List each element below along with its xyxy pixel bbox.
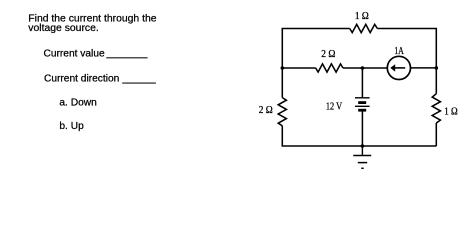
wire: top rail right segment + right rail upper xyxy=(377,29,436,69)
blank line for current value xyxy=(106,57,147,59)
wire: right rail lower xyxy=(435,123,437,146)
resistor R right 1-ohm (vertical zigzag) xyxy=(432,94,440,123)
svg-text:Current direction: Current direction xyxy=(44,73,119,84)
wire: right rail from node C down to right resistor xyxy=(435,68,437,94)
node A junction dot (left middle) xyxy=(281,66,285,70)
svg-text:2 Ω: 2 Ω xyxy=(259,105,273,116)
wire: middle rail from node A to 2-ohm resistor xyxy=(282,67,315,69)
svg-text:Current value: Current value xyxy=(44,48,105,59)
wire: middle branch from node B down to battery xyxy=(361,68,363,97)
svg-text:1A: 1A xyxy=(394,46,404,57)
svg-text:12 V: 12 V xyxy=(326,102,343,113)
wire: battery to bottom rail node D xyxy=(361,112,363,147)
resistor R mid 2-ohm (horizontal zigzag) xyxy=(316,64,343,72)
wire: left rail from node A down to left resistor xyxy=(281,68,283,98)
resistor R left 2-ohm (vertical zigzag) xyxy=(278,98,286,126)
svg-text:2 Ω: 2 Ω xyxy=(321,49,335,60)
node D junction dot (bottom middle) xyxy=(361,144,365,148)
svg-text:b. Up: b. Up xyxy=(59,121,84,132)
node B junction dot (middle) xyxy=(361,66,365,70)
voltage source V1 12V battery xyxy=(355,98,370,110)
svg-text:voltage source.: voltage source. xyxy=(28,23,98,34)
current source arrow (pointing left) xyxy=(390,64,405,71)
wire: left rail lower + bottom rail xyxy=(282,126,436,146)
current source I1 1A circle xyxy=(387,56,410,79)
wire: left rail upper + top rail left segment xyxy=(282,29,349,69)
ground symbol xyxy=(353,146,371,168)
blank line for current direction xyxy=(122,82,156,84)
resistor R top 1-ohm (horizontal zigzag) xyxy=(350,24,378,32)
svg-text:1 Ω: 1 Ω xyxy=(355,11,369,22)
svg-text:a. Down: a. Down xyxy=(59,98,96,109)
wire: middle rail from current source to node C xyxy=(411,67,437,69)
node C junction dot (right middle) xyxy=(435,66,439,70)
wire: middle rail from 2-ohm resistor to current source xyxy=(343,67,387,69)
svg-text:1 Ω: 1 Ω xyxy=(444,107,458,118)
